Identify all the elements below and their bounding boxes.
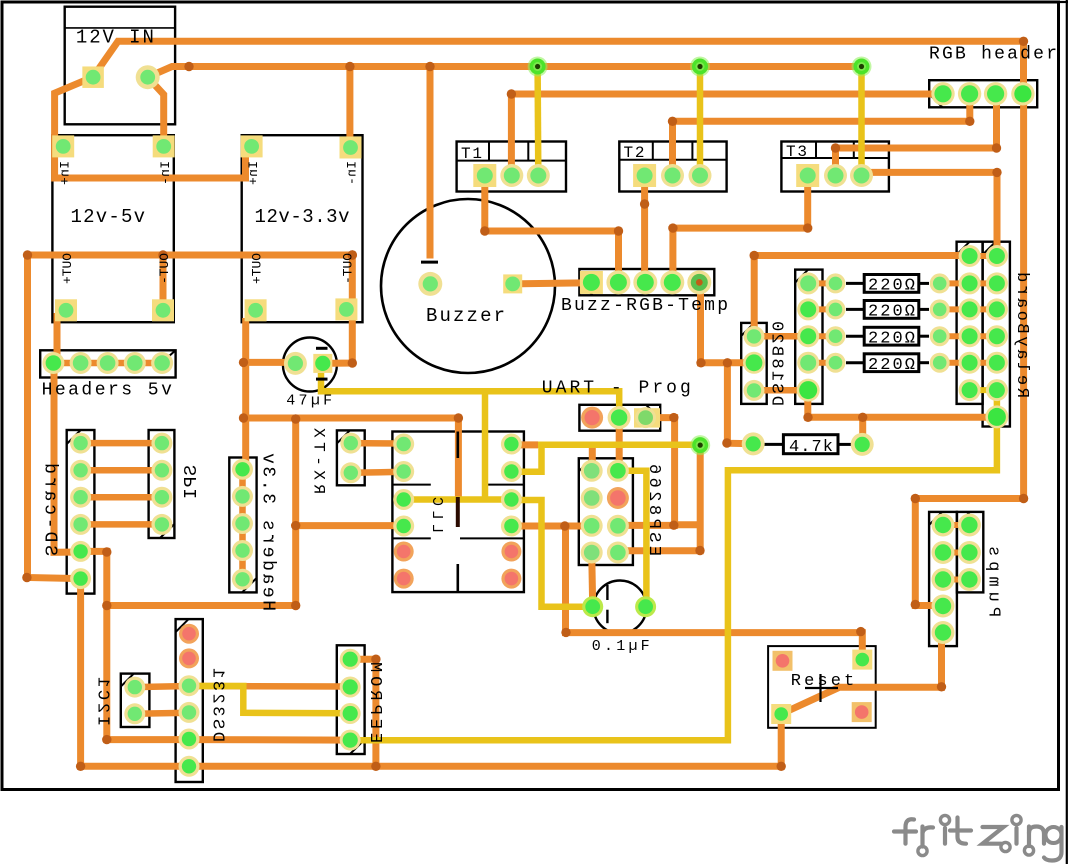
pads T2 <box>633 164 711 187</box>
header DS3231 box <box>176 619 203 782</box>
wire SD-card pin6 to DS3231 pin6 <box>81 579 189 767</box>
IC ESP8266 box <box>579 458 633 565</box>
pads 12V IN <box>82 65 159 89</box>
svg-text:0.1µF: 0.1µF <box>592 638 650 655</box>
wire relay pad link <box>940 280 997 286</box>
svg-text:T2: T2 <box>624 144 645 162</box>
wire Headers 5v pad chain <box>53 360 162 367</box>
svg-text:In+: In+ <box>246 161 261 185</box>
switch Reset box <box>768 646 876 728</box>
wire rail to 12v-3.3v In- <box>346 67 353 148</box>
wire UART-Prog pin2 to ESP8266 right pin1 <box>616 418 623 471</box>
pads Reset switch <box>771 650 872 724</box>
pads buzzer <box>418 272 522 296</box>
wire 12V-IN pin2 to 12v-5v In- <box>148 77 164 146</box>
pads UART-Prog <box>581 406 660 429</box>
fritzing logo <box>894 815 1062 860</box>
wire top-layer bus to via <box>538 441 700 448</box>
wire DS3231 pin6 to Reset bottom-left pad <box>189 714 781 766</box>
header SD-card box <box>67 430 95 594</box>
wire LLC right pin3 to 0.1uF left pad <box>511 500 592 607</box>
header Headers 5v box <box>40 350 175 377</box>
wire 12v-5v OUT+ to Headers5v pin1 <box>54 313 61 363</box>
wire Headers 3.3v pad chain <box>239 469 246 579</box>
wire SD-card pin1 to SPI pin1 <box>81 440 162 447</box>
header EEPROM box <box>337 645 365 754</box>
pads ESP8266 <box>581 460 629 564</box>
wire header pad link <box>808 306 835 312</box>
resistor 220ohm R2 box <box>846 301 929 319</box>
svg-text:OUT-: OUT- <box>157 253 172 284</box>
window edge lines <box>1058 0 1068 864</box>
wire pumps pad link <box>943 550 969 556</box>
wire T1 pin1 to Buzz-RGB-Temp pin2 <box>485 175 619 282</box>
svg-text:In+: In+ <box>58 161 73 185</box>
wire DS18B20 pin1 up to RelayBoard col1 top pad <box>754 256 960 337</box>
pads DS18B20 header col2 <box>826 273 846 372</box>
buzzer outline circle <box>381 199 555 373</box>
wire OUT- rail down left side to SD-card pin6 <box>28 255 81 579</box>
wire branch down to Reset top-right pad <box>566 526 863 660</box>
wire Headers5v pin1 down to SD-card pin5 <box>54 363 81 552</box>
header SPI box <box>149 430 175 538</box>
header RGB header box <box>929 80 1037 107</box>
wire LLC right pin4 to ESP8266 left pin3 <box>511 523 591 530</box>
via V2 <box>690 57 710 77</box>
resistor 220ohm R1 box <box>846 275 929 293</box>
wire SD-card pin4 to SPI pin4 <box>81 521 162 528</box>
47uF polarity marks <box>316 348 328 379</box>
svg-text:UART - Prog: UART - Prog <box>542 379 691 399</box>
wire RX-TX pin2 to LLC left pin2 <box>351 472 404 473</box>
wire 3v3 rail branch into LLC <box>244 418 459 497</box>
wire branch to 4.7k left pad <box>727 363 753 444</box>
capacitor 47uF outline <box>283 338 337 392</box>
wire via3 to T3 pin3 <box>858 67 865 176</box>
header RX-TX box <box>337 430 365 485</box>
wire via1 to T1 pin3 <box>534 67 541 176</box>
wire header pad link <box>808 360 835 366</box>
header RelayBoard col2 box <box>983 242 1010 427</box>
pads 12v-5v In+ In- OUT+ OUT- <box>52 135 175 321</box>
wire EEPROM pin1 to ground rail <box>350 659 376 766</box>
wire relay pad link <box>940 360 997 366</box>
pads Headers 5v <box>42 352 173 374</box>
svg-text:T1: T1 <box>461 145 482 163</box>
wire T3 pin1 to Buzz-RGB-Temp pin4 <box>673 176 808 283</box>
svg-text:ESP8266: ESP8266 <box>644 464 663 556</box>
header I2C1 box <box>121 674 150 727</box>
wire 47uF plus to UART-Prog pin2 <box>321 373 619 418</box>
wire UART-Prog pin3 to ESP8266 right pin3 <box>618 418 675 526</box>
pads RelayBoard col1 <box>959 245 981 401</box>
svg-text:In-: In- <box>158 161 173 185</box>
wire ESP8266 left pin4 to 0.1uF left pad <box>592 553 593 607</box>
wire relay bottom pad link <box>970 387 997 393</box>
via V4 near UART <box>690 435 710 455</box>
wire pumps pad link <box>943 577 969 583</box>
wire I2C1 pin2 to DS3231 pin4 <box>135 713 189 714</box>
capacitor 0.1uF outline <box>594 581 647 634</box>
header T1 box <box>457 142 566 192</box>
header T2 box <box>619 142 726 192</box>
wire 12V-IN pin1 to 12v-5v In+ and 12v-3.3v In+ <box>55 77 246 178</box>
svg-text:DS18B20: DS18B20 <box>767 321 786 406</box>
header Headers 3.3v box <box>229 458 256 593</box>
pads 0.1uF <box>582 596 656 617</box>
wire pumps pad link <box>943 522 969 528</box>
wire buzzer plus pad to Buzz-RGB-Temp pin1 <box>513 283 592 284</box>
pads EEPROM <box>340 649 361 751</box>
svg-text:12v-5v: 12v-5v <box>71 206 146 228</box>
wire LLC row3 link <box>404 496 512 503</box>
pads Headers 3.3v <box>232 459 253 590</box>
wire relay bottom to EEPROM pin4 <box>350 390 997 740</box>
Reset switch symbol <box>805 674 838 702</box>
wire 12V-IN pin1 to RGB header pin4 (top rail) <box>93 41 1024 94</box>
wire branch to 4.7k right pad <box>859 417 866 444</box>
wire SD-card pin3 to SPI pin3 <box>81 494 162 501</box>
header Pumps col1 box <box>929 512 957 646</box>
pads DS3231 <box>179 624 200 777</box>
header UART-Prog box <box>579 405 660 431</box>
svg-text:SD-card: SD-card <box>40 463 60 556</box>
wire branch to 12v-5v OUT- <box>160 255 167 310</box>
module 12V IN box <box>65 7 175 125</box>
wire Reset bottom-left pad to Pumps pin5 <box>781 633 941 714</box>
wire I2C1 pin1 to DS3231 pin3 <box>135 686 189 687</box>
wire DS3231 pin3 jog to EEPROM pin3 <box>189 686 350 713</box>
wire via2 to T2 pin3 <box>697 67 704 176</box>
pads I2C1 <box>124 677 145 725</box>
pads SD-card <box>70 433 91 589</box>
via V3 <box>852 57 872 77</box>
wire SD-card pin2 to SPI pin2 <box>81 467 162 474</box>
pads Buzz-RGB-Temp <box>580 270 711 294</box>
svg-text:OUT+: OUT+ <box>250 253 265 284</box>
svg-text:Reset: Reset <box>791 672 854 691</box>
svg-text:12v-3.3v: 12v-3.3v <box>255 206 350 228</box>
pads SPI <box>151 433 172 535</box>
wire LLC right pin1 stub <box>511 441 538 448</box>
wire T2 pin1 to Buzz-RGB-Temp pin3 <box>641 176 648 283</box>
wire 12v-3.3v OUT+ down to Headers3.3v pin1 <box>242 318 249 469</box>
wire header pad link <box>808 280 835 286</box>
pads 12v-3.3v In+ In- OUT+ OUT- <box>241 135 362 321</box>
wire relay pad link <box>940 333 997 339</box>
resistor 220ohm R4 box <box>846 354 929 372</box>
IC LLC box <box>392 432 524 593</box>
header Pumps col2 box <box>957 512 983 593</box>
svg-text:OUT+: OUT+ <box>60 253 75 284</box>
buzzer minus mark <box>421 261 438 264</box>
pads 4.7k resistor <box>742 432 874 456</box>
pads Pumps col2 <box>958 514 981 592</box>
pads DS18B20 header col1 <box>797 272 820 401</box>
svg-text:LLC: LLC <box>428 497 445 533</box>
wire relay pad link <box>940 306 997 312</box>
svg-text:In-: In- <box>345 161 360 185</box>
wire branch down to LLC row3 rail <box>482 391 489 499</box>
wire T2 pin2 to RGB header pin2 <box>673 94 970 176</box>
wire 3v3 net riser joining LLC row4 rail <box>107 419 296 606</box>
header Buzz-RGB-Temp box <box>579 269 714 295</box>
wire Buzz-RGB-Temp pin5 to DS18B20 pin2 <box>699 282 753 362</box>
wire DS3231 pin3 to EEPROM pin2 <box>189 683 350 690</box>
svg-text:4.7k: 4.7k <box>789 438 833 457</box>
wire T3 pin3 to RelayBoard col2 top pad <box>872 172 997 256</box>
wire link to via rail <box>675 521 701 528</box>
wire DS18B20 pin3 to header pin5 <box>754 387 808 394</box>
pads relay input row <box>930 273 950 372</box>
LLC pin marks <box>456 432 459 593</box>
wire header pin5 to RelayBoard col2 bottom pad <box>808 390 997 417</box>
module 12v-3.3v box <box>242 135 363 322</box>
via V1 <box>528 57 548 77</box>
svg-text:T3: T3 <box>786 143 807 161</box>
svg-text:OUT-: OUT- <box>341 253 356 284</box>
pads Pumps col1 <box>932 514 955 645</box>
wire DS3231 pin5 to EEPROM pin4 <box>189 736 350 744</box>
pads RGB header <box>931 82 1034 105</box>
wire branch to 47uF minus pad <box>244 359 296 366</box>
pads T1 <box>473 164 550 187</box>
header T3 box <box>781 142 889 192</box>
wire RGB header pin4 down right side to Pumps pad4 <box>915 94 1023 606</box>
pads RX-TX <box>340 433 361 484</box>
svg-text:SPI: SPI <box>182 465 202 499</box>
wire 12V-IN pin2 rail to via3 <box>148 67 862 78</box>
wire rail down to buzzer minus pin <box>427 67 434 259</box>
pads LLC <box>393 434 522 589</box>
wire RX-TX pin1 to LLC left pin1 <box>351 440 404 447</box>
resistor 220ohm R3 box <box>846 327 929 345</box>
module 12v-5v box <box>52 135 173 322</box>
wire SD-card pin5 to DS3231 pin5 <box>81 551 189 739</box>
wire relay top pad link <box>970 253 997 259</box>
wire header pad link <box>808 333 835 339</box>
0.1uF capacitor marks <box>606 585 608 623</box>
wire bus jog to LLC right pin2 <box>511 445 541 472</box>
wire OUT- rail to 47uF plus pad <box>28 255 353 363</box>
sensor DS18B20 box <box>741 323 767 404</box>
pads T3 <box>796 164 873 187</box>
wire bus tap to ESP8266 left pin1 <box>589 446 596 471</box>
wire T1 pin2 to RGB header pin1 <box>511 94 943 175</box>
wire branch to LLC left pin4 <box>296 522 404 529</box>
wire T3 pin3 stub <box>862 169 873 176</box>
header RelayBoard col1 box <box>957 242 983 404</box>
resistor 4.7k box <box>763 435 852 454</box>
pads 47uF <box>284 352 332 375</box>
wire T3 pin2 to RGB header pin3 <box>836 94 997 176</box>
pads RelayBoard col2 <box>985 245 1008 428</box>
header DS18B20-pins box <box>795 270 822 404</box>
wire via down to ESP8266 right pin4 <box>618 445 700 551</box>
wire DS18B20 pin1 to header pin3 <box>754 333 808 340</box>
wire ESP8266 right pin1 to 0.1uF right pad <box>618 471 647 607</box>
pads DS18B20 <box>743 326 765 401</box>
